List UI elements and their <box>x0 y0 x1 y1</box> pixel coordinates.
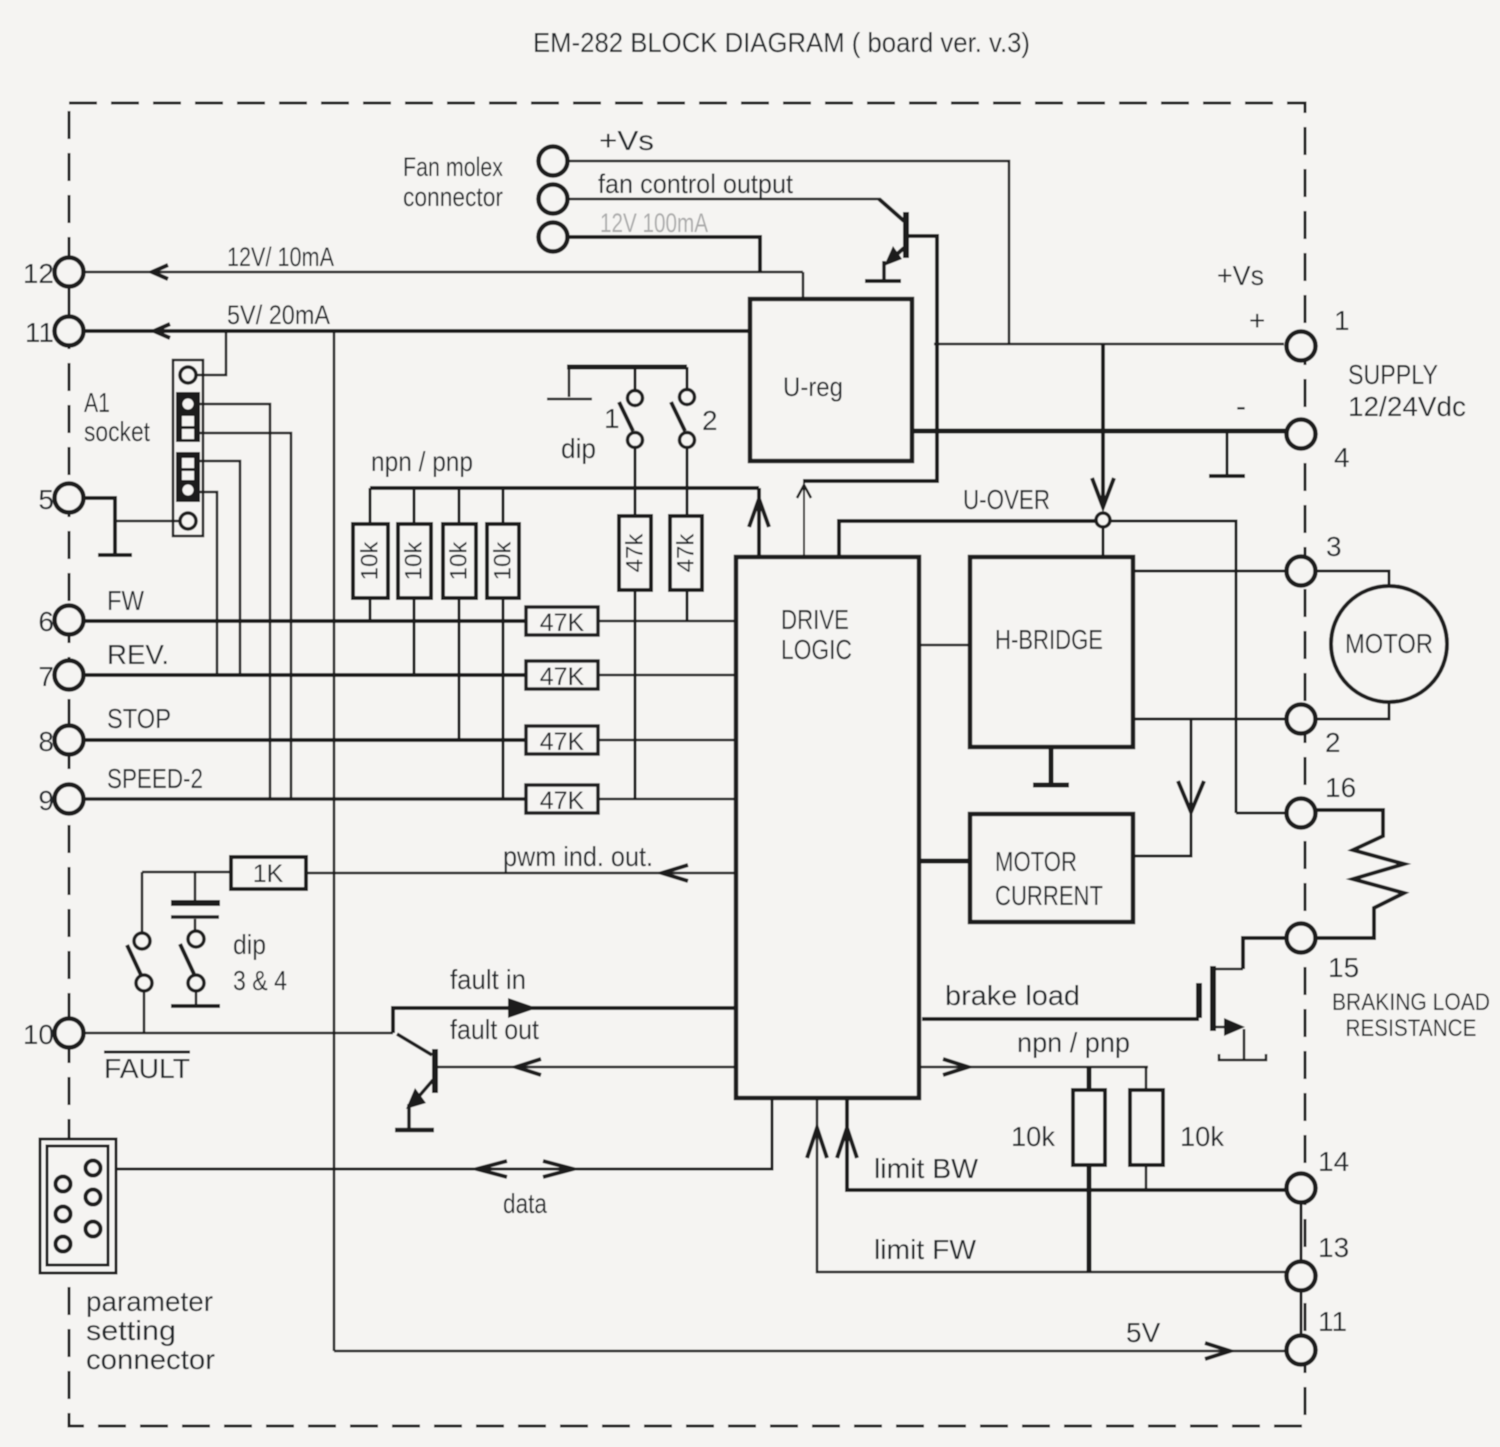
wire 5V/20mA line <box>83 329 750 333</box>
resistor R6 47k <box>670 516 702 590</box>
resistor R2 10k <box>398 524 431 598</box>
wire limit FW <box>817 1098 1287 1272</box>
label FAULT <box>104 1051 190 1054</box>
wire fan 12V 100mA <box>568 237 760 272</box>
svg-text:47K: 47K <box>540 609 585 637</box>
svg-text:7: 7 <box>38 661 54 692</box>
svg-text:5V/ 20mA: 5V/ 20mA <box>227 300 330 330</box>
svg-text:fault in: fault in <box>450 964 526 995</box>
svg-text:dip: dip <box>233 929 266 960</box>
wire minus supply line <box>912 429 1286 434</box>
node 3 <box>1287 557 1316 586</box>
resistor R11 1K <box>231 857 306 889</box>
A1 socket <box>173 360 203 536</box>
svg-text:connector: connector <box>403 182 503 212</box>
wire drive logic top arrow <box>803 483 805 557</box>
svg-text:A1: A1 <box>84 387 110 418</box>
arrow pwm <box>662 865 688 881</box>
wire 5V vertical rail <box>333 331 336 1351</box>
ground dip4 <box>171 1004 220 1008</box>
svg-text:10k: 10k <box>1011 1121 1056 1152</box>
svg-text:1: 1 <box>604 403 620 434</box>
svg-text:1: 1 <box>1334 305 1350 336</box>
svg-text:9: 9 <box>38 785 54 816</box>
svg-text:47k: 47k <box>673 533 700 573</box>
svg-text:47K: 47K <box>540 728 585 756</box>
transistor Q1 fan <box>879 199 937 281</box>
svg-text:10k: 10k <box>1180 1121 1225 1152</box>
svg-text:6: 6 <box>38 606 54 637</box>
wire npn/pnp bus <box>370 486 759 490</box>
svg-text:8: 8 <box>38 726 54 757</box>
resistor R3 10k <box>443 524 476 598</box>
wire DL to MC <box>919 859 970 864</box>
svg-text:npn / pnp: npn / pnp <box>1017 1027 1130 1058</box>
wire bus to drive logic with arrow <box>757 488 761 557</box>
svg-text:socket: socket <box>84 416 150 447</box>
node 5 <box>55 484 84 513</box>
svg-text:-: - <box>1236 390 1246 423</box>
dip switch 1-2 top bar <box>567 365 687 370</box>
svg-text:limit BW: limit BW <box>874 1153 979 1184</box>
fan pin 1 <box>539 147 568 176</box>
node 4 <box>1287 420 1316 449</box>
svg-text:5: 5 <box>38 484 54 515</box>
resistor R8 47K <box>526 661 598 689</box>
svg-text:+: + <box>1249 305 1265 336</box>
svg-text:11: 11 <box>1318 1306 1347 1337</box>
svg-text:fan control output: fan control output <box>598 169 793 199</box>
svg-text:connector: connector <box>86 1344 215 1375</box>
wire 5V bottom <box>334 1350 1287 1353</box>
svg-text:DRIVE: DRIVE <box>781 604 849 635</box>
arrow on 5V/20mA <box>154 324 170 338</box>
wire A1 pin4 <box>200 461 240 675</box>
svg-text:3: 3 <box>1326 531 1342 562</box>
svg-text:CURRENT: CURRENT <box>995 880 1103 911</box>
node 7 <box>55 661 84 690</box>
svg-text:47k: 47k <box>622 533 649 573</box>
node 11 <box>55 317 84 346</box>
board boundary (dashed) <box>69 103 1305 1426</box>
wire data <box>116 1098 772 1169</box>
svg-text:MOTOR: MOTOR <box>995 846 1077 877</box>
svg-text:fault out: fault out <box>450 1014 539 1045</box>
transistor Q3 mosfet brake <box>1213 968 1243 971</box>
wire limit BW <box>847 1098 1287 1190</box>
svg-text:11: 11 <box>25 317 54 348</box>
resistor R12 braking zigzag <box>1315 810 1404 938</box>
resistor R7 47K <box>526 607 598 635</box>
svg-text:14: 14 <box>1318 1146 1349 1177</box>
svg-text:12: 12 <box>23 258 54 289</box>
wire SPEED-2 row <box>83 797 526 801</box>
wire motor out 2 <box>1133 718 1287 721</box>
svg-text:BRAKING LOAD: BRAKING LOAD <box>1332 989 1490 1016</box>
dip switch 2 <box>686 367 689 390</box>
wire 12V/10mA line <box>83 271 803 274</box>
svg-text:FAULT: FAULT <box>104 1053 190 1084</box>
resistor R1 10k <box>353 524 388 598</box>
svg-text:pwm ind. out.: pwm ind. out. <box>503 841 653 872</box>
resistor R13 10k <box>1087 1067 1092 1090</box>
wire REV row <box>83 673 526 677</box>
svg-text:10: 10 <box>23 1019 54 1050</box>
svg-text:H-BRIDGE: H-BRIDGE <box>995 624 1103 655</box>
svg-text:3 & 4: 3 & 4 <box>233 965 287 996</box>
svg-text:SPEED-2: SPEED-2 <box>107 763 203 794</box>
svg-text:REV.: REV. <box>107 639 169 670</box>
wire U-OVER to pin 16 <box>1110 521 1236 813</box>
wire A1 top pin to 5V line <box>196 331 226 375</box>
node 8 <box>55 726 84 755</box>
svg-text:U-reg: U-reg <box>783 372 843 402</box>
ground Q2 <box>395 1128 434 1133</box>
svg-text:16: 16 <box>1325 772 1356 803</box>
wire A1 pin2 <box>200 404 270 799</box>
svg-text:data: data <box>503 1188 547 1219</box>
svg-text:setting: setting <box>86 1315 176 1346</box>
svg-text:12V 100mA: 12V 100mA <box>600 208 708 238</box>
wire U-OVER drop <box>1101 344 1105 505</box>
svg-text:LOGIC: LOGIC <box>781 634 852 665</box>
svg-text:47K: 47K <box>540 787 585 815</box>
fan pin 2 <box>539 185 568 214</box>
fan pin 3 <box>539 223 568 252</box>
svg-text:12V/ 10mA: 12V/ 10mA <box>227 242 334 272</box>
svg-text:FW: FW <box>107 585 144 616</box>
wire FW row <box>83 619 526 623</box>
wire +Vs supply line <box>934 343 1284 346</box>
resistor R2 10k lead <box>413 488 416 524</box>
node 1 <box>1287 332 1316 361</box>
svg-text:RESISTANCE: RESISTANCE <box>1346 1015 1477 1042</box>
wire fan +Vs <box>568 161 1009 344</box>
node 13 <box>1287 1262 1316 1291</box>
wire motor leads <box>1315 571 1389 587</box>
svg-text:brake load: brake load <box>945 980 1080 1011</box>
op-amp U1: U-reg box <box>750 299 912 461</box>
svg-text:10k: 10k <box>401 541 428 581</box>
Q2 emitter <box>414 1080 433 1102</box>
svg-text:1K: 1K <box>253 860 284 888</box>
svg-text:limit FW: limit FW <box>874 1234 977 1265</box>
node 15 <box>1287 924 1316 953</box>
svg-text:STOP: STOP <box>107 703 171 734</box>
wire fault out <box>436 1066 736 1069</box>
wire dip34 top <box>142 871 231 874</box>
resistor R5 47k <box>619 516 651 590</box>
wire FAULT row <box>83 1032 393 1035</box>
svg-text:U-OVER: U-OVER <box>963 484 1050 515</box>
wire fan control output <box>568 198 880 201</box>
svg-text:npn / pnp: npn / pnp <box>371 446 473 477</box>
ground terminal5 <box>98 553 132 557</box>
node 16 <box>1287 799 1316 828</box>
wire U-OVER to H-BRIDGE <box>1102 527 1105 557</box>
svg-text:15: 15 <box>1328 952 1359 983</box>
wire A1 pin5 <box>200 492 217 675</box>
resistor R14 10k <box>1145 1067 1148 1090</box>
dip switch 1 <box>634 367 637 390</box>
svg-text:4: 4 <box>1334 442 1350 473</box>
svg-text:MOTOR: MOTOR <box>1345 628 1433 659</box>
node 9 <box>55 785 84 814</box>
node 14 <box>1287 1174 1316 1203</box>
wire Q1 collector to U-OVER feed <box>803 234 937 481</box>
svg-text:13: 13 <box>1318 1232 1349 1263</box>
ground Q1 <box>865 279 901 283</box>
ground supply <box>1226 431 1229 474</box>
node 6 <box>55 606 84 635</box>
svg-text:12/24Vdc: 12/24Vdc <box>1348 391 1466 422</box>
wire A1 bottom pin <box>115 520 180 523</box>
svg-text:dip: dip <box>561 433 596 464</box>
svg-text:2: 2 <box>702 405 718 436</box>
node U-OVER junction <box>1096 513 1110 527</box>
wire MC sense arrow <box>1133 719 1191 856</box>
wire terminal 12-11 link <box>68 286 71 318</box>
svg-text:Fan molex: Fan molex <box>403 152 503 182</box>
resistor R9 47K <box>526 726 598 754</box>
svg-text:10k: 10k <box>357 541 384 581</box>
svg-text:10k: 10k <box>490 541 517 581</box>
arrow on 12V/10mA <box>152 265 168 279</box>
DRIVE LOGIC box U2 <box>736 557 919 1098</box>
svg-text:parameter: parameter <box>86 1286 213 1317</box>
dip switch 3 <box>134 933 150 949</box>
wire DL to HB <box>919 644 970 647</box>
transistor Q2 fault <box>397 1034 432 1055</box>
wire 1K to drive logic <box>306 872 736 875</box>
MOTOR CURRENT box U4 <box>970 814 1133 922</box>
svg-text:+Vs: +Vs <box>1217 260 1264 291</box>
wire A1 pin3 <box>200 433 291 799</box>
H-BRIDGE box U3 <box>970 557 1133 747</box>
wire npn/pnp bottom <box>919 1066 1148 1069</box>
svg-text:EM-282 BLOCK DIAGRAM ( board v: EM-282 BLOCK DIAGRAM ( board ver. v.3) <box>533 27 1030 58</box>
capacitor C1 <box>194 872 197 900</box>
node 10 <box>55 1019 84 1048</box>
ground H-BRIDGE <box>1049 747 1054 783</box>
node 2 <box>1287 705 1316 734</box>
resistor R1 10k lead <box>369 488 372 524</box>
svg-text:5V: 5V <box>1126 1317 1161 1348</box>
parameter setting connector J1 <box>40 1139 116 1273</box>
MOTOR M1 <box>1331 586 1447 702</box>
resistor R3 10k lead <box>458 488 461 524</box>
node 12 <box>55 258 84 287</box>
wire 16 stub <box>1236 812 1287 815</box>
wire STOP row <box>83 738 526 742</box>
wire terminal 14-13-11 links <box>1300 1203 1303 1261</box>
svg-text:SUPPLY: SUPPLY <box>1348 359 1438 390</box>
wire brake load <box>922 1017 1199 1021</box>
wire 15 to mosfet <box>1243 938 1286 969</box>
dip switch 4 <box>188 931 204 947</box>
resistor R4 10k lead <box>502 488 505 524</box>
svg-text:47K: 47K <box>540 663 585 691</box>
wire fault in <box>393 1008 736 1033</box>
wire U-reg top feed <box>802 272 805 299</box>
svg-text:+Vs: +Vs <box>599 125 654 156</box>
resistor R10 47K <box>526 785 598 813</box>
node 11b <box>1287 1336 1316 1365</box>
svg-text:10k: 10k <box>446 541 473 581</box>
wire U-OVER to drive logic <box>839 521 1096 557</box>
svg-text:2: 2 <box>1325 727 1341 758</box>
wire motor out 3 <box>1133 570 1287 573</box>
wire terminal 5 <box>83 498 115 553</box>
resistor R4 10k <box>487 524 519 598</box>
